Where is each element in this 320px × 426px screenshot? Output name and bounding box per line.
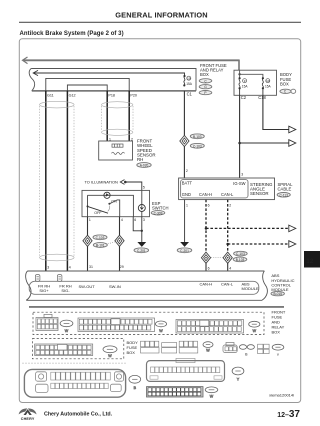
wire: pin 1 to SW-OUT [87,217,89,236]
wire: P18 to sensor pin 1 [106,91,108,141]
svg-text:15A: 15A [186,82,193,86]
svg-text:10: 10 [266,79,270,83]
ABS pin number labels 3 4 31 29 [47,265,124,269]
fuse C2 15A [239,77,241,79]
wire: main power bus to body fuse box [23,59,239,61]
svg-text:15A: 15A [242,84,249,88]
connector face body fuse box [35,344,93,356]
svg-text:xiema120014i: xiema120014i [269,392,294,397]
pin labels below box: 1 6 2 [186,204,231,208]
wire: CAN-H dashed [205,200,207,253]
wire: diamond to BATT pin 2 [183,146,185,178]
inline connector diamond (CAN-L) [223,252,232,263]
svg-text:Y: Y [277,353,280,357]
svg-text:B: B [134,386,137,390]
svg-text:CHERY: CHERY [21,417,35,421]
connector oval C-113 [277,193,290,198]
svg-text:W: W [108,354,112,358]
svg-text:3: 3 [143,218,145,222]
node: off-page arrow right (C18) [289,126,296,133]
page tab [304,251,320,268]
svg-text:P20: P20 [130,93,137,97]
wire: rail to switch pivot and pin 1 [87,195,89,216]
wire: pin 4 to SW-IN [119,217,121,236]
node: off-page arrow right (CAN-L) [289,241,296,248]
svg-text:C-103: C-103 [96,236,105,240]
svg-text:RH: RH [137,157,143,162]
svg-text:GND: GND [182,192,191,197]
sensor wave symbol [112,152,125,154]
svg-text:W: W [253,329,257,333]
svg-text:SIG+: SIG+ [39,288,49,293]
connector code oval C [280,89,291,93]
front wheel speed sensor RH box [99,141,133,160]
svg-text:CABLE: CABLE [278,187,292,192]
svg-text:6: 6 [208,267,210,271]
wire: branch to off-page arrow [240,142,289,144]
svg-text:19: 19 [187,77,191,81]
svg-text:BOX: BOX [272,330,281,335]
wire: C18 to off-page arrow [263,95,289,129]
svg-text:CAN-H: CAN-H [200,281,213,286]
svg-text:4: 4 [121,218,123,222]
wire: pin 5 to LED [141,190,143,204]
ground (steering sensor) [180,242,189,247]
svg-text:W: W [210,395,214,399]
ESP switch box [82,190,150,216]
svg-text:B: B [245,352,248,356]
svg-text:B-103: B-103 [236,258,245,262]
connector oval A-020 [137,163,151,168]
svg-text:BOX: BOX [280,82,289,87]
svg-text:TO ILLUMINATION: TO ILLUMINATION [85,180,119,185]
wire: pins 6,3 to ground [133,217,142,231]
node: junction dot feed split [238,73,240,75]
svg-text:3: 3 [47,266,49,270]
svg-text:A-020: A-020 [140,164,149,168]
svg-text:29: 29 [120,265,124,269]
svg-text:4: 4 [229,267,231,271]
wire: CAN-H diamond to ABS [205,263,207,271]
svg-text:CAN-L: CAN-L [221,281,234,286]
label ABS HYDRAULIC CONTROL MODULE [271,273,294,292]
svg-text:SW-OUT: SW-OUT [79,284,96,289]
fuse C1 15A [183,75,185,77]
svg-text:C2: C2 [241,95,247,100]
connector labels G11 G12 P18 P20 [47,93,137,97]
svg-text:C-103: C-103 [236,252,245,256]
wire: feed to C18 fuse [240,71,263,78]
dashed group box (body fuse box connector) [32,339,123,359]
connector oval B-103 [190,134,204,139]
lever travel arc [108,206,110,212]
svg-text:C-309: C-309 [154,211,163,215]
ESP switch connector face [147,387,204,397]
svg-text:W: W [65,329,69,333]
svg-text:C-201: C-201 [180,249,189,253]
inline connector diamond (SW-IN) [115,235,124,246]
connector oval C-103 (CAN) [234,251,248,256]
dotted tie between CAN diamonds [211,257,223,259]
svg-text:CAN-H: CAN-H [199,192,212,197]
node: CAN-H branch dot [205,227,208,230]
svg-text:C-113: C-113 [279,193,288,197]
inner pin strip [29,281,259,294]
node: off-page arrow right (CAN-H) [289,225,296,232]
wire: G12 to ABS pin 4 [66,91,68,271]
svg-text:6: 6 [208,204,210,208]
svg-text:12–37: 12–37 [277,409,300,420]
svg-text:P: P [204,91,206,95]
svg-text:SENSOR: SENSOR [250,191,269,196]
wire: bus drop into body fuse box [238,60,240,71]
node: ground junction dot [141,230,143,232]
wire: CAN-L dashed [227,200,229,253]
svg-text:2: 2 [229,204,231,208]
svg-text:OFF: OFF [94,211,102,215]
svg-text:BATT: BATT [182,181,193,186]
svg-text:SWITCH: SWITCH [152,206,169,211]
sensor coil symbol [112,144,123,147]
connector face G (view B) [78,318,155,332]
connector oval B-101 [93,243,107,248]
wire: CAN-H branch dashed to arrow [206,227,289,229]
svg-text:W: W [159,329,163,333]
wire: CAN-L branch dashed to arrow [228,243,289,245]
ABS hydraulic control module box (wavy left and right edges) [26,271,268,300]
svg-text:3: 3 [241,173,243,177]
svg-text:G12: G12 [69,93,76,97]
node: dot on illumination wire [124,181,127,184]
svg-text:4: 4 [69,266,71,270]
shield tube left (G11/G12 pair) [40,101,75,261]
body fuse box outline [234,70,277,95]
inline connector diamond (BATT feed) [180,135,189,146]
svg-text:6: 6 [134,218,136,222]
wire: loop G12 to P18 [67,85,107,91]
ESP indicator LED [138,205,145,212]
wire: C2 down to IG-SW [239,95,241,178]
connector oval C-103 [190,143,204,148]
svg-text:CAN-L: CAN-L [221,192,234,197]
steering sensor connector face [176,358,195,362]
inner pin strip [181,180,248,198]
connector oval C-103 [93,235,107,240]
label FRONT WHEEL SPEED SENSOR RH [137,139,156,162]
svg-text:BOX: BOX [200,72,209,77]
ground oval C-201 [177,248,192,253]
svg-text:12: 12 [306,258,314,265]
pin clip symbol (pin 3) [35,275,40,282]
wire: C1 feed to BATT [183,91,185,136]
connector oval B-103 (CAN) [233,257,247,262]
wire: LED to pin 3 [141,212,143,217]
connector oval C-309 [151,211,165,215]
svg-text:IG-SW: IG-SW [233,181,245,186]
front fuse and relay box outline (wavy left edge) [29,69,196,91]
switch ON contact [108,203,110,205]
label FRONT FUSE AND RELAY BOX [200,63,227,77]
wire: GND to ground [184,200,186,242]
dotted separator [23,362,128,364]
wire: illumination feed to pin 5 [125,182,142,190]
header rule [19,21,301,23]
node: junction dot IG-SW branch [238,142,241,145]
wire: loop G11 to P20 [46,78,129,91]
inline connector diamond (SW-OUT) [83,235,92,246]
pin name labels [38,281,259,293]
ABS module connector face [24,369,125,397]
dotted tie to diamond [108,242,115,244]
chery logo mark [19,408,37,415]
wire: fused feed inside box [34,73,185,76]
wire: diamond to ABS pin 29 [119,246,121,271]
connector oval B-015 [271,291,284,295]
wire: G11 to ABS pin 3 [45,91,47,271]
svg-text:Y: Y [237,378,240,382]
svg-text:W: W [206,348,210,352]
svg-text:31: 31 [89,265,93,269]
wire: feed down to C2 fuse [239,74,241,78]
steering angle sensor box [179,178,275,200]
node: arrow to illumination [120,180,124,185]
svg-text:P18: P18 [108,93,115,97]
svg-text:Antilock Brake System (Page 2: Antilock Brake System (Page 2 of 3) [20,31,124,37]
svg-text:5: 5 [143,185,145,189]
pin labels 1 4 6 3 [89,218,145,222]
label ESP SWITCH [152,201,169,211]
svg-text:15A: 15A [265,84,272,88]
section separator line [29,306,284,308]
svg-text:SIG-: SIG- [61,288,70,293]
node: CAN-L branch dot [226,243,229,246]
shield tube right (P18/P20 pair) [102,102,134,136]
ground (ESP switch) [137,242,146,247]
diagram frame [19,39,300,403]
wire: CAN-L diamond to ABS [227,263,229,271]
svg-text:MODULE: MODULE [242,286,259,291]
switch lever (OFF position) [88,206,109,213]
svg-text:1: 1 [89,218,91,222]
connector code oval C [199,79,212,83]
svg-text:BOX: BOX [127,350,136,355]
svg-text:B-103: B-103 [193,135,202,139]
wire: C18 fuse out [262,88,264,95]
svg-text:GENERAL INFORMATION: GENERAL INFORMATION [115,11,208,20]
connector code oval G [199,85,212,89]
label SPIRAL CABLE [278,182,294,192]
svg-text:SW-IN: SW-IN [109,284,121,289]
node: off-page arrow right (IG feed) [289,140,296,147]
inline connector diamond (CAN-H) [201,252,210,263]
label STEERING ANGLE SENSOR [250,182,273,196]
dashed group box (front fuse/relay connectors) [33,312,264,334]
wire: P20 to sensor pin 2 [128,91,130,141]
ground oval C-201 [134,248,149,253]
svg-text:2: 2 [186,169,188,173]
node: off-page arrow left on power bus [23,57,28,64]
svg-text:B-015: B-015 [273,292,282,296]
svg-text:C1: C1 [187,92,193,97]
pin clip symbol (pin 4) [57,275,62,282]
footer [19,408,301,421]
connector code oval P [199,91,212,95]
pin name labels [182,181,246,198]
wire: C2 fuse out [239,88,241,95]
body fuse box internal layout [141,341,145,347]
svg-text:Chery Automobile Co., Ltd.: Chery Automobile Co., Ltd. [44,412,113,418]
wire: lamp rail to pin 6 [88,195,134,216]
svg-text:G11: G11 [47,93,54,97]
ABS CAN pin labels [208,267,232,271]
wire: ON contact to pin 4 [109,200,119,217]
wire: diamond to ABS pin 31 [87,246,89,271]
connector face C (relay box view A) [44,314,52,317]
illumination lamp [104,192,110,198]
svg-text:1: 1 [186,204,188,208]
fuse C18 10A [262,77,264,79]
harness line (box bottom, thick) [32,90,196,92]
svg-text:C-103: C-103 [193,144,202,148]
node: arrow on fused feed [33,70,38,75]
switch pivot contact [87,205,89,207]
connector face P (view C) [176,320,244,334]
svg-text:B-101: B-101 [96,244,105,248]
label BODY FUSE BOX [280,72,292,87]
svg-text:C-201: C-201 [137,249,146,253]
